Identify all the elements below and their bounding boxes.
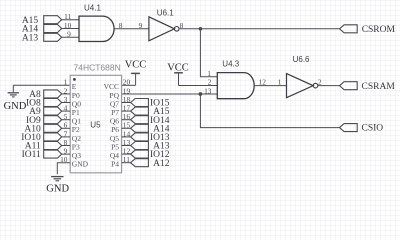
svg-text:12: 12 [259, 78, 267, 87]
svg-text:20: 20 [123, 78, 131, 87]
net flag IO9 [26, 116, 62, 126]
net flag A15 (right) [131, 107, 170, 117]
net flag A10 [24, 124, 61, 134]
svg-text:A12: A12 [153, 159, 170, 169]
and gate U4.3 [217, 59, 254, 98]
net flag IO8 [26, 99, 62, 109]
svg-text:IO11: IO11 [22, 150, 41, 160]
net flag A14 (right) [131, 124, 170, 134]
wire U5 pin 10 to ground [57, 163, 70, 175]
svg-text:9: 9 [139, 21, 143, 30]
net flag IO14 [131, 116, 170, 126]
wire U5 pin 13 to A13 [122, 145, 131, 147]
wire VCC to U5 pin 20 [122, 84, 136, 86]
net flag IO12 [131, 150, 170, 160]
svg-text:GND: GND [72, 160, 89, 169]
wire U6.6 output to CSRAM [318, 85, 340, 87]
wire IO9 to U5 pin 5 [62, 119, 70, 121]
net flag A13 (right) [131, 142, 170, 152]
wire U5 pin 17 to A15 [122, 110, 131, 112]
junction node CSIO branch [199, 92, 203, 96]
wire CSROM net down to U4.3 pin 1 [200, 29, 217, 77]
junction node CSROM branch [199, 27, 203, 31]
wire IO10 to U5 pin 7 [62, 136, 70, 138]
wire VCC to U4.3 pin 2 [179, 85, 218, 87]
svg-text:1: 1 [278, 78, 282, 87]
net flag IO11 [22, 150, 62, 160]
wire A14 to U4.1 pin 10 [62, 28, 79, 30]
wire A8 to U5 pin 2 [62, 93, 70, 95]
svg-text:VCC: VCC [167, 62, 189, 73]
IC U5 74HCT688N [70, 63, 121, 173]
svg-text:P4: P4 [111, 160, 119, 169]
net flag CSRAM [340, 82, 396, 92]
wire GND to U5 pin 1 E [13, 84, 70, 86]
wire U5 pin 11 to A12 [122, 162, 131, 164]
wire A15 to U4.1 pin 11 [62, 19, 79, 21]
net flag CSROM [340, 25, 396, 35]
svg-text:11: 11 [123, 155, 130, 164]
wire junction down to CSIO [200, 94, 339, 128]
net flag A14 [22, 25, 62, 35]
net flag A11 [25, 142, 62, 152]
wire A11 to U5 pin 8 [62, 145, 70, 147]
net flag IO13 [131, 133, 170, 143]
svg-text:11: 11 [64, 12, 71, 21]
wire U5 pin 14 to IO13 [122, 136, 131, 138]
wire A9 to U5 pin 4 [62, 110, 70, 112]
wire U5 pin 16 to IO14 [122, 119, 131, 121]
svg-text:U4.1: U4.1 [84, 3, 101, 12]
ground symbol GND (U5 pin 1) [4, 85, 27, 112]
svg-text:GND: GND [46, 183, 69, 194]
svg-text:CSIO: CSIO [362, 124, 384, 134]
svg-text:9: 9 [67, 30, 71, 39]
net flag A9 [29, 107, 62, 117]
inverter U6.1 [149, 8, 179, 41]
svg-text:U6.1: U6.1 [157, 8, 174, 17]
svg-text:10: 10 [60, 155, 68, 164]
svg-text:2: 2 [208, 78, 212, 87]
wire IO11 to U5 pin 9 [62, 153, 70, 155]
wire U5 pin 18 to IO15 [122, 102, 131, 104]
svg-text:CSRAM: CSRAM [362, 82, 396, 92]
svg-text:VCC: VCC [125, 60, 147, 71]
wire U5 pin 19 PQ to U4.3 pin 13 [122, 93, 218, 95]
svg-text:U5: U5 [90, 120, 101, 129]
svg-text:10: 10 [64, 21, 72, 30]
svg-text:13: 13 [204, 86, 212, 95]
power flag VCC (U4.3) [167, 62, 189, 85]
net flag A15 [22, 16, 62, 26]
ground symbol GND (U5 pin 10) [46, 177, 69, 195]
svg-text:U6.6: U6.6 [293, 55, 310, 64]
svg-text:1: 1 [207, 69, 211, 78]
net flag A13 [22, 33, 62, 43]
svg-text:GND: GND [4, 101, 27, 112]
and gate U4.1 [79, 3, 114, 41]
wire A10 to U5 pin 6 [62, 127, 70, 129]
svg-text:74HCT688N: 74HCT688N [74, 63, 121, 73]
wire A13 to U4.1 pin 9 [62, 36, 79, 38]
wire IO8 to U5 pin 3 [62, 102, 70, 104]
inverter U6.6 [287, 55, 318, 98]
net flag IO10 [21, 133, 61, 143]
wire U5 pin 12 to IO12 [122, 153, 131, 155]
net flag CSIO [340, 124, 384, 134]
net flag IO15 [131, 99, 170, 109]
wire U4.3 pin 12 to U6.6 pin 1 [254, 85, 286, 87]
wire U4.1 pin 8 to U6.1 pin 9 [114, 28, 149, 30]
svg-text:A13: A13 [22, 34, 39, 44]
power flag VCC (U5 pin 20) [125, 60, 147, 86]
svg-text:8: 8 [119, 21, 123, 30]
wire U5 pin 15 to A14 [122, 127, 131, 129]
net flag A12 [131, 159, 170, 169]
wire U6.1 output to CSROM [179, 28, 340, 30]
svg-text:CSROM: CSROM [362, 25, 396, 35]
net flag A8 [29, 90, 62, 100]
svg-text:U4.3: U4.3 [222, 59, 239, 68]
